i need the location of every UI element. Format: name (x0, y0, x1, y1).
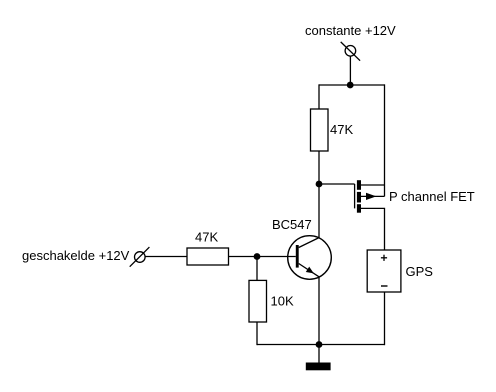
wire Q1 emitter to bottom rail (318, 277, 320, 345)
wire gate node to FET gate (319, 183, 355, 185)
wire FET source lead (361, 184, 385, 186)
wire right rail top node to FET (384, 84, 386, 196)
wire R2 to base node (229, 256, 258, 258)
svg-text:GPS: GPS (406, 264, 434, 279)
wire base node to R3 (256, 257, 258, 281)
wire gate node to Q1 collector (318, 184, 320, 238)
wire Q1 base (257, 256, 296, 258)
wire R1 to gate node (318, 151, 320, 184)
resistor R3 10K (vertical) (249, 280, 267, 322)
wire GPS to bottom rail (384, 292, 386, 345)
terminal constante +12V (341, 42, 360, 61)
node base junction (254, 253, 261, 260)
svg-text:10K: 10K (271, 293, 294, 308)
svg-text:BC547: BC547 (272, 217, 312, 232)
resistor R1 47K (vertical) (311, 109, 329, 151)
resistor R2 47K (horizontal) (187, 248, 229, 265)
transistor U1 P channel FET (355, 180, 377, 213)
svg-text:47K: 47K (195, 229, 218, 244)
wire top horizontal (319, 84, 385, 86)
plus terminal mark (381, 255, 387, 261)
wire FET drain lead (361, 208, 385, 250)
transistor Q1 BC547 (288, 236, 332, 280)
ground (306, 363, 331, 371)
node gate junction (316, 181, 323, 188)
wire terminal to R2 (145, 256, 187, 258)
svg-text:geschakelde +12V: geschakelde +12V (22, 248, 130, 263)
svg-text:47K: 47K (330, 122, 353, 137)
wire bottom rail (257, 344, 385, 346)
minus terminal mark (381, 285, 388, 287)
node ground junction (316, 341, 323, 348)
svg-text:P channel FET: P channel FET (389, 189, 475, 204)
svg-text:constante +12V: constante +12V (305, 23, 396, 38)
terminal geschakelde +12V (130, 247, 150, 267)
wire ground stub (318, 345, 320, 363)
wire terminal to top node (349, 56, 351, 85)
node top junction (347, 82, 354, 89)
wire R3 to bottom rail (256, 322, 258, 345)
battery GPS box (367, 250, 401, 292)
wire FET body lead (361, 195, 385, 197)
wire top node to R1 (318, 84, 320, 109)
